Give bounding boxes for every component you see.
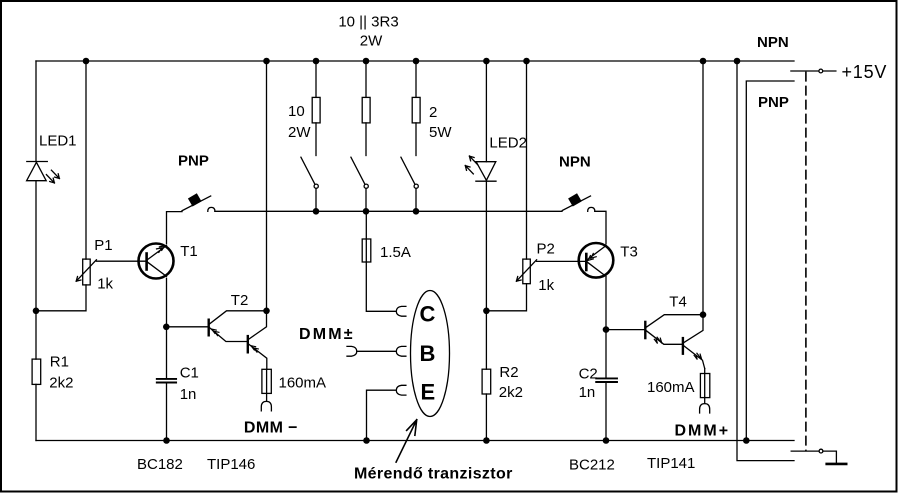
svg-text:P1: P1 — [94, 237, 112, 254]
transistor T1 — [139, 244, 174, 279]
svg-text:TIP141: TIP141 — [647, 455, 695, 472]
transistor T3 — [579, 243, 614, 278]
node top NPN — [734, 58, 741, 65]
svg-text:1n: 1n — [180, 386, 197, 403]
svg-text:T2: T2 — [231, 292, 249, 309]
svg-text:NPN: NPN — [757, 34, 789, 51]
resistor 2 5W column — [412, 61, 420, 156]
potentiometer P1 — [76, 259, 96, 285]
svg-text:160mA: 160mA — [279, 375, 327, 392]
svg-text:1.5A: 1.5A — [380, 244, 411, 261]
wire P2 branch top — [526, 61, 528, 259]
node A LED1/P1 — [33, 308, 40, 315]
LED2 — [465, 156, 496, 181]
node switch rail S1 — [313, 208, 320, 215]
wire NPN switch to T3 emitter — [595, 211, 606, 244]
node switch rail S3 — [413, 208, 420, 215]
plug DMM+/- probe — [347, 346, 357, 356]
wire LED2 branch upper — [485, 61, 487, 162]
node top T2 collector — [263, 58, 270, 65]
capacitor C1 — [157, 379, 176, 383]
node top R 3R3 — [363, 58, 370, 65]
fuse 1.5A — [362, 211, 371, 262]
svg-text:2k2: 2k2 — [49, 374, 73, 391]
node top P2 — [523, 58, 530, 65]
wire LED2 to node B — [485, 180, 487, 369]
capacitor C2 — [596, 378, 617, 382]
switch NPN — [562, 194, 595, 211]
socket B — [396, 346, 406, 356]
resistor R1 — [32, 359, 41, 384]
svg-text:1n: 1n — [579, 384, 596, 401]
wire P1 bottom to node A — [36, 285, 86, 311]
svg-text:R2: R2 — [499, 364, 518, 381]
node top R 10 — [313, 58, 320, 65]
wire dashed supply link — [805, 72, 807, 451]
wire C2 to bottom rail — [605, 383, 607, 441]
svg-text:B: B — [420, 341, 436, 366]
node B LED2/P2 — [483, 308, 490, 315]
node bottom C1 — [163, 437, 170, 444]
svg-text:160mA: 160mA — [647, 379, 695, 396]
svg-text:1k: 1k — [538, 277, 554, 294]
svg-text:2k2: 2k2 — [499, 384, 523, 401]
node T2 collector — [263, 308, 270, 315]
svg-text:2W: 2W — [288, 124, 311, 141]
wire T4 collector column from top rail — [702, 61, 704, 315]
wire bottom rail — [36, 440, 794, 442]
switch S2 — [351, 157, 368, 211]
transistor T2 — [209, 311, 267, 370]
ground — [827, 463, 847, 466]
svg-text:PNP: PNP — [758, 94, 789, 111]
svg-text:C2: C2 — [579, 365, 598, 382]
node top LED2 — [483, 58, 490, 65]
transistor T4 — [645, 315, 704, 369]
wire PNP rail column — [746, 81, 794, 441]
resistor 10 2W column — [312, 61, 320, 156]
node bottom PNP — [743, 437, 750, 444]
wire T1 collector down — [166, 278, 168, 378]
potentiometer P2 — [516, 259, 536, 284]
terminal ground link — [791, 449, 836, 462]
resistor R2 — [482, 369, 491, 394]
node top R 2 — [413, 58, 420, 65]
svg-text:E: E — [421, 379, 436, 404]
svg-text:DMM+: DMM+ — [675, 422, 731, 439]
svg-text:LED2: LED2 — [489, 135, 527, 152]
wire T4 base — [606, 329, 645, 331]
svg-text:TIP146: TIP146 — [207, 456, 255, 473]
svg-text:C: C — [420, 302, 436, 327]
svg-text:DMM±: DMM± — [299, 326, 355, 343]
svg-text:10: 10 — [288, 103, 305, 120]
arrow to ellipse — [396, 420, 417, 462]
svg-text:T4: T4 — [669, 294, 687, 311]
node T2 base — [163, 324, 170, 331]
wire LED1 branch upper — [35, 61, 37, 162]
svg-text:T1: T1 — [180, 243, 198, 260]
wire R2 to bottom rail — [485, 394, 487, 441]
svg-text:5W: 5W — [429, 124, 452, 141]
switch S1 — [301, 157, 318, 211]
svg-text:2: 2 — [429, 104, 437, 121]
socket C — [396, 306, 406, 316]
svg-text:LED1: LED1 — [39, 133, 77, 150]
socket E — [396, 385, 406, 395]
wire R1 to bottom rail — [35, 384, 37, 440]
connector DMM- socket — [261, 401, 271, 410]
wire switch rail — [215, 210, 562, 212]
svg-text:BC182: BC182 — [137, 456, 183, 473]
ellipse transistor socket — [411, 291, 450, 417]
wire fuse to C socket — [366, 262, 396, 311]
svg-text:DMM −: DMM − — [244, 419, 298, 436]
wire T2 base — [166, 326, 207, 328]
switch PNP — [182, 194, 215, 211]
wire P1 branch top — [85, 61, 87, 259]
resistor (3R3) middle column — [362, 61, 370, 156]
wire socket E to bottom rail — [367, 390, 397, 440]
svg-text:10 || 3R3: 10 || 3R3 — [338, 14, 398, 31]
fuse 160mA right — [700, 369, 709, 404]
terminal +15V — [791, 69, 836, 73]
node bottom E — [363, 437, 370, 444]
wire top rail — [36, 60, 794, 62]
svg-text:+15V: +15V — [842, 62, 888, 82]
wire P2 wiper to T3 base — [537, 260, 587, 262]
svg-text:PNP: PNP — [178, 153, 209, 170]
svg-text:C1: C1 — [180, 365, 199, 382]
node switch rail S2 — [363, 208, 370, 215]
node T4 collector — [700, 311, 707, 318]
svg-text:R1: R1 — [50, 354, 69, 371]
node bottom C2 — [603, 437, 610, 444]
node bottom R2 — [483, 437, 490, 444]
wire plug to socket B — [357, 350, 397, 352]
node top P1 — [83, 58, 90, 65]
svg-text:1k: 1k — [97, 276, 113, 293]
svg-text:NPN: NPN — [559, 154, 591, 171]
wire LED1 to node A — [35, 181, 37, 359]
wire C1 to bottom rail — [166, 384, 168, 441]
connector DMM+ socket — [700, 404, 710, 413]
fuse 160mA left — [262, 369, 271, 401]
wire P1 wiper to T1 base — [96, 260, 146, 262]
wire P2 bottom to node B — [486, 284, 526, 311]
LED1 — [27, 162, 60, 183]
wire T2 collector column from top rail — [266, 61, 268, 311]
node T4 base — [603, 326, 610, 333]
svg-text:BC212: BC212 — [569, 457, 615, 474]
node top T4 collector — [700, 58, 707, 65]
switch S3 — [401, 157, 418, 211]
svg-text:2W: 2W — [360, 33, 383, 50]
svg-text:P2: P2 — [537, 241, 555, 258]
wire NPN rail column — [737, 61, 794, 461]
svg-text:T3: T3 — [620, 244, 638, 261]
wire T3 collector down — [605, 278, 607, 378]
svg-text:Mérendő tranzisztor: Mérendő tranzisztor — [354, 466, 513, 483]
wire T1 emitter up to PNP switch — [167, 212, 183, 244]
